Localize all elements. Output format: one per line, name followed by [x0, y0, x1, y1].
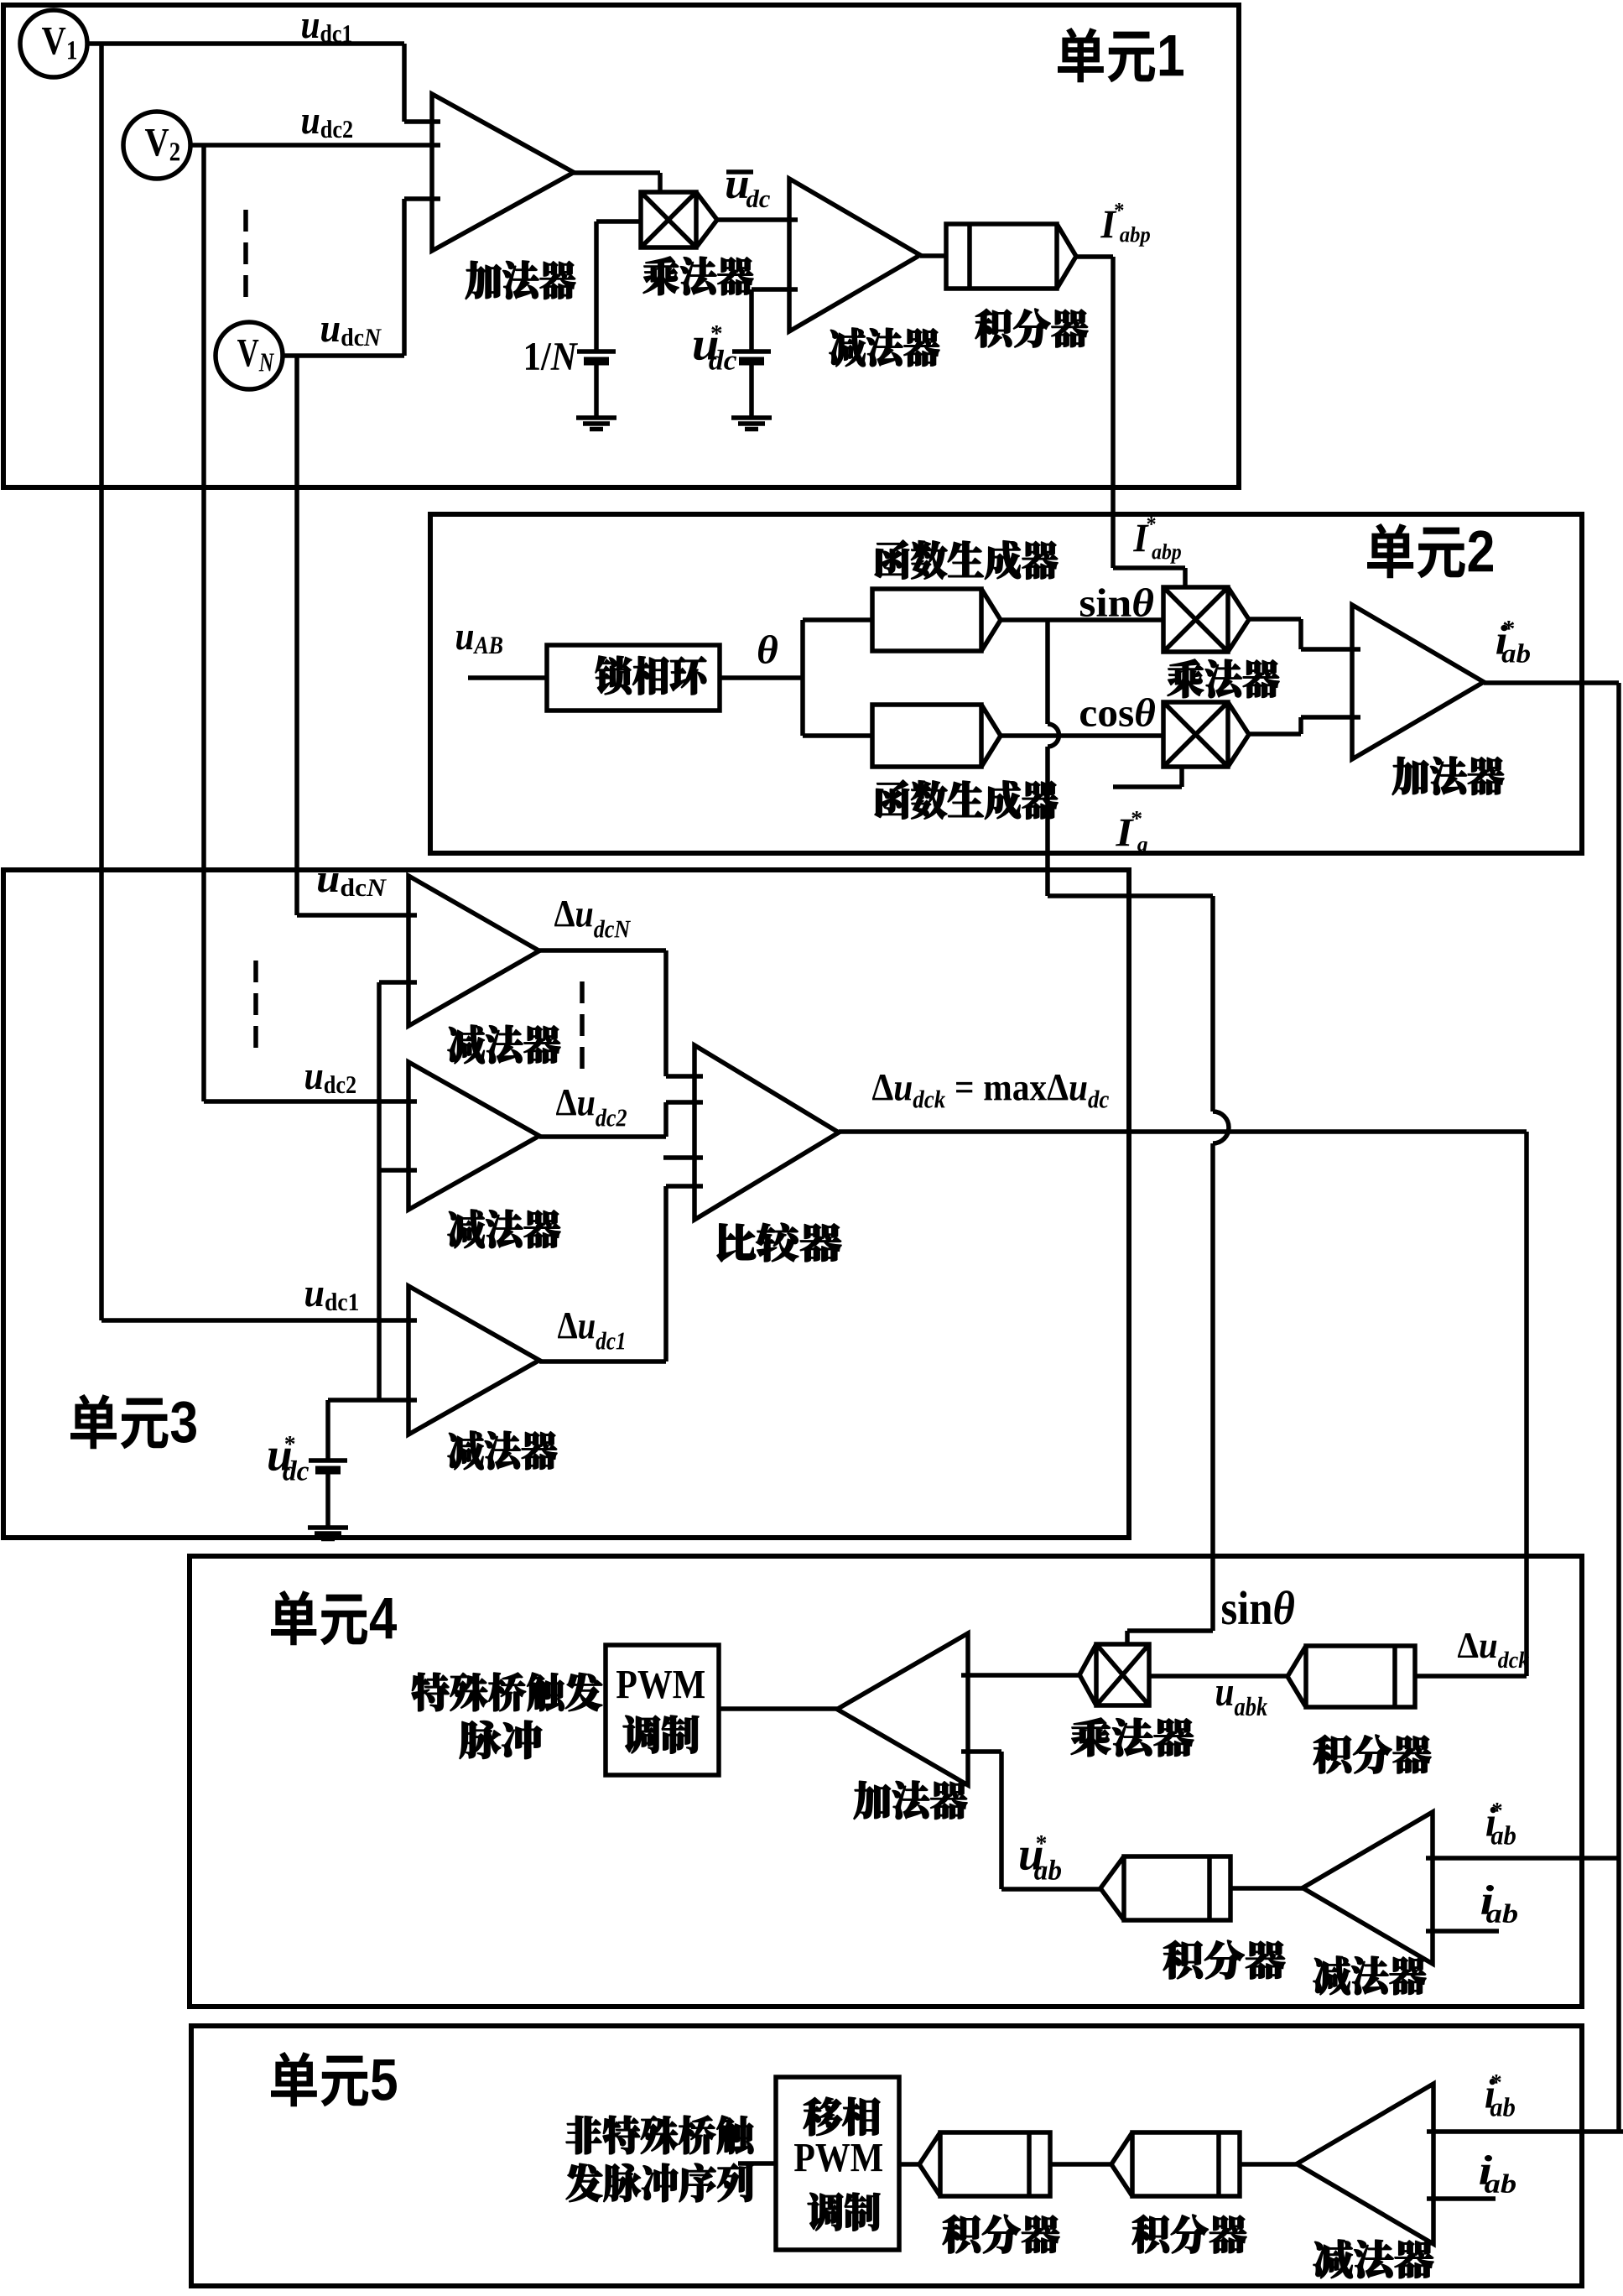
label I*_q — [1116, 820, 1134, 846]
PWM modulation box U4 — [606, 1645, 719, 1775]
label 加法器 U2 — [1392, 757, 1428, 794]
wire integrator U5I1 to integrator U5I2 — [1050, 2162, 1111, 2167]
label 积分器 U4 lower — [1163, 1940, 1203, 1979]
comparator U3C 比较器 — [694, 1045, 839, 1220]
wire delta-u_dck output to unit4 — [839, 1132, 1527, 1676]
wire from V2 node down to unit3 u_dc2 input — [204, 145, 417, 1101]
ground below u*_dc U1 — [731, 418, 772, 430]
wire 1/N into multiplier U1M — [596, 221, 641, 351]
wire u*_dc battery U3 — [325, 1400, 330, 1460]
wire PLL output theta split — [720, 620, 872, 736]
wire u*_dc battery to ground — [749, 361, 754, 417]
wire battery to ground — [594, 361, 599, 417]
wire i*_ab into subtractor U4S — [1426, 1856, 1619, 1861]
label 单元4 — [271, 1591, 316, 1645]
label i_ab U5 — [1480, 2155, 1492, 2184]
wire from VN node down to unit3 u_dcN input — [297, 356, 417, 915]
wire I*_q into multiplier U2M2 — [1113, 767, 1182, 787]
overbar of u_dc_bar — [726, 169, 753, 174]
adder U4A 加法器 — [837, 1633, 968, 1785]
wire I*_abp output down to unit2 — [1076, 257, 1185, 587]
label 比较器 — [717, 1224, 756, 1262]
label u_AB — [456, 631, 473, 650]
label u_abk — [1216, 1686, 1233, 1706]
wire adder U1A output to multiplier U1M — [574, 173, 660, 192]
label 单元5 — [271, 2052, 317, 2106]
label sin_theta U4 — [1222, 1601, 1236, 1624]
wire i*_ab output to right margin and down — [1484, 683, 1619, 2132]
integrator U4I2 积分器 — [1100, 1856, 1230, 1920]
wire u_dc1 from V1 to adder U1A — [87, 44, 440, 122]
label u_dc2 — [302, 115, 319, 134]
unit 3 box — [3, 870, 1129, 1538]
label i*_ab U4 — [1486, 1807, 1496, 1836]
label u_dcN U3 — [318, 873, 339, 893]
u*_dc reference bus U3 — [328, 982, 417, 1400]
wire from V1 node down to unit3 u_dc1 input — [101, 44, 417, 1320]
label i_ab U4 — [1481, 1885, 1494, 1914]
label 乘法器 U2 — [1168, 659, 1204, 698]
wire delta-u_dcN output to comparator — [539, 950, 703, 1076]
label 1/N — [526, 343, 539, 370]
label 积分器 U1 — [975, 309, 1012, 347]
wire u_dc_bar multiplier U1M to subtractor U1S — [717, 217, 798, 222]
label 单元3 — [70, 1394, 117, 1449]
adder U1A 加法器 — [432, 94, 574, 251]
ellipsis right U3 — [580, 981, 585, 1070]
label u*_dc U3 — [268, 1449, 291, 1471]
label 脉冲 — [460, 1721, 501, 1759]
subtractor U4S 减法器 — [1303, 1812, 1433, 1964]
label u*_ab — [1020, 1848, 1043, 1870]
battery source u*_dc U3 — [309, 1458, 347, 1463]
label u_dc1 — [302, 19, 319, 39]
wire adder U4A to PWM box — [719, 1706, 837, 1711]
label 减法器 U1 — [830, 328, 865, 367]
integrator U1I 积分器 — [946, 224, 1076, 289]
unit 1 box — [3, 5, 1239, 487]
function generator U2F2 函数生成器 — [872, 705, 1001, 767]
wire multiplier U2M2 to adder U2A — [1249, 717, 1360, 734]
wire integrator U4I1 to multiplier U4M — [1149, 1674, 1287, 1679]
PLL box 锁相环 — [547, 645, 720, 711]
label 单元2 — [1367, 523, 1413, 578]
label i*_ab U5 — [1485, 2079, 1496, 2108]
subtractor U3S1 减法器 top — [408, 876, 539, 1026]
wire u*_dc into subtractor U1S — [752, 289, 798, 351]
label 加法器 U1 — [466, 261, 501, 299]
label u*_dc U1 — [694, 338, 718, 360]
label 乘法器 U1 — [643, 257, 679, 295]
hop over delta-u_dck wire — [1213, 1112, 1229, 1143]
wire integrator U5I2 to subtractor U5S — [1240, 2162, 1297, 2167]
subtractor U5S 减法器 — [1297, 2084, 1433, 2244]
label cos_theta — [1080, 707, 1096, 726]
battery source u*_dc U1 — [732, 349, 771, 354]
multiplier U1M 乘法器 — [641, 192, 717, 247]
unit 4 box — [190, 1556, 1582, 2007]
wire integrator U4I2 to subtractor U4S — [1230, 1886, 1303, 1891]
label V2 — [145, 129, 169, 156]
label 单元1 — [1058, 28, 1104, 82]
label 减法器 U3 middle — [448, 1210, 484, 1248]
label 积分器 U4 upper — [1313, 1735, 1351, 1773]
label 调制 U5 — [808, 2193, 843, 2231]
label theta — [758, 635, 778, 664]
wire sin_theta branch down to unit4 with hop over cos wire — [1045, 620, 1050, 724]
label PWM U5 — [794, 2144, 814, 2171]
wire subtractor U1S to integrator U1I — [920, 253, 946, 258]
ellipsis input stub of comparator — [663, 1155, 703, 1160]
label delta-u_dck U4 — [1458, 1633, 1478, 1658]
wire delta-u_dc2 output to comparator — [539, 1102, 703, 1137]
label PWM U4 — [616, 1671, 637, 1698]
wire i_ab stub into subtractor U4S — [1426, 1929, 1499, 1934]
stub from label to PWM box U5 — [738, 2161, 776, 2166]
label delta-u_dc1 — [558, 1313, 577, 1338]
integrator U5I2 积分器 — [1111, 2132, 1240, 2196]
wire sin_theta to multiplier U2M1 — [1001, 617, 1163, 622]
ground below u*_dc U3 — [308, 1528, 348, 1539]
unit 2 box — [430, 514, 1582, 853]
voltage sensor V1 — [20, 10, 87, 77]
wire u*_ab from integrator U4I2 to adder U4A — [961, 1752, 1100, 1889]
wire i_ab stub into subtractor U5S — [1427, 2196, 1496, 2201]
multiplier U4M 乘法器 — [1079, 1644, 1149, 1705]
label sin_theta U2 — [1080, 597, 1095, 617]
phase-shift PWM modulation box U5 — [776, 2077, 899, 2250]
integrator U4I1 积分器 — [1287, 1646, 1415, 1707]
label I*_abp U1 — [1100, 211, 1116, 237]
label 发脉冲序列 — [566, 2163, 602, 2201]
label 减法器 U4 — [1313, 1956, 1350, 1995]
ground below 1/N source — [576, 418, 616, 430]
wire delta-u_dc1 output to comparator — [539, 1186, 703, 1361]
function generator U2F1 函数生成器 — [872, 589, 1001, 651]
wire PWM box to integrator U5I1 — [899, 2162, 919, 2167]
label i*_ab U2 — [1496, 625, 1508, 654]
ellipsis between V2 and VN — [243, 210, 248, 302]
integrator U5I1 积分器 — [919, 2132, 1050, 2196]
label 函数生成器 bottom — [875, 780, 909, 819]
subtractor U3S3 减法器 bottom — [408, 1286, 539, 1434]
multiplier U2M2 乘法器 — [1163, 702, 1249, 767]
label I*_abp U2 — [1133, 525, 1149, 551]
label 积分器 U5 left — [943, 2215, 981, 2253]
label 减法器 U3 bottom — [448, 1431, 483, 1470]
label 调制 U4 — [623, 1715, 660, 1753]
label 函数生成器 top — [875, 540, 909, 579]
wire u_dc2 from V2 to adder U1A — [190, 143, 440, 148]
label 减法器 U5 — [1313, 2240, 1352, 2278]
subtractor U1S 减法器 — [789, 179, 920, 331]
label u_dc1 U3 — [305, 1288, 324, 1307]
label 乘法器 U4 — [1071, 1718, 1111, 1757]
wire multiplier U4M to adder U4A — [961, 1673, 1079, 1678]
battery source 1/N — [577, 349, 616, 354]
label VN — [237, 340, 258, 367]
label 非特殊桥触 — [566, 2116, 601, 2153]
wire cos_theta to multiplier U2M2 — [1001, 733, 1163, 738]
wire i*_ab into subtractor U5S — [1427, 2129, 1623, 2134]
label 加法器 U4 — [854, 1781, 891, 1819]
adder U2A 加法器 — [1352, 605, 1484, 759]
wire sin_theta continues to unit4 multiplier — [1127, 1143, 1213, 1644]
label delta-u_dck = max delta-u_dc — [872, 1075, 893, 1100]
ellipsis left U3 — [253, 961, 258, 1049]
label 移相 — [804, 2097, 842, 2136]
label u_dc_bar — [726, 178, 748, 198]
label delta-u_dc2 — [556, 1090, 576, 1115]
label 特殊桥触发 — [412, 1673, 449, 1711]
label 减法器 U3 top — [448, 1025, 484, 1064]
multiplier U2M1 乘法器 — [1163, 587, 1249, 652]
wire multiplier U2M1 to adder U2A — [1249, 619, 1360, 649]
voltage sensor VN — [216, 322, 283, 389]
label 锁相环 — [596, 656, 632, 695]
subtractor U3S2 减法器 middle — [408, 1062, 539, 1210]
wire battery to ground U3 — [325, 1470, 330, 1527]
label delta-u_dcN — [554, 901, 575, 926]
label u_dc2 U3 — [305, 1070, 322, 1090]
label 积分器 U5 right — [1132, 2215, 1169, 2253]
voltage sensor V2 — [123, 112, 190, 179]
unit 5 box — [191, 2026, 1582, 2286]
wire u_AB input into PLL — [468, 675, 547, 680]
wire u_dcN from VN to adder U1A — [283, 199, 440, 356]
label u_dcN — [321, 323, 340, 342]
label V1 — [42, 28, 65, 55]
